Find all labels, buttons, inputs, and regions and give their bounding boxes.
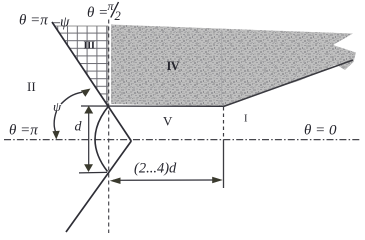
vertical dashed line at x=223 (upper part) [223,107,225,140]
bottom reference tick at y=172.9 [79,171,107,174]
psi upper arrowhead [81,89,91,97]
svg-text:V: V [163,114,173,129]
d dimension lower arrowhead [84,164,93,172]
vertical solid line at x=223 (lower part) [223,140,225,189]
(2...4)d right arrowhead [212,177,223,184]
horizontal reference line at y=106 [81,105,224,107]
svg-text:θ =: θ = [87,5,108,21]
svg-text:θ = 0: θ = 0 [304,123,337,139]
lens left arc [95,106,109,172]
svg-text:III: III [84,40,95,51]
psi lower arrowhead [52,131,59,140]
region III hatched triangle [55,26,109,106]
region IV shaded area [111,25,356,107]
label theta = pi/2 [87,0,121,23]
wedge edge L2: lower ray [66,141,131,232]
svg-text:–ψ: –ψ [52,15,71,31]
horizontal axis theta=pi .. theta=0 (dash-dot centerline) [4,139,360,141]
svg-text:I: I [244,113,248,124]
svg-text:IV: IV [167,59,180,73]
svg-text:(2...4)d: (2...4)d [134,161,177,177]
faint scan streak inside region IV [221,30,223,104]
psi angle lower arc [54,111,56,132]
d dimension vertical line [88,111,90,166]
svg-text:ψ: ψ [53,99,62,114]
d dimension upper arrowhead [84,106,93,114]
svg-text:θ =π: θ =π [19,12,48,28]
wedge edge L1: ray theta=pi-psi [52,22,131,141]
(2...4)d left arrowhead [110,178,121,185]
svg-text:2: 2 [115,9,121,23]
vertical dashed line theta=pi/2 [108,20,110,234]
gray region bottom boundary line [224,60,354,107]
svg-text:II: II [27,79,36,94]
svg-text:d: d [75,120,83,135]
svg-text:θ =π: θ =π [9,123,38,139]
(2...4)d dimension line [113,179,214,181]
psi angle upper arc [61,92,82,104]
